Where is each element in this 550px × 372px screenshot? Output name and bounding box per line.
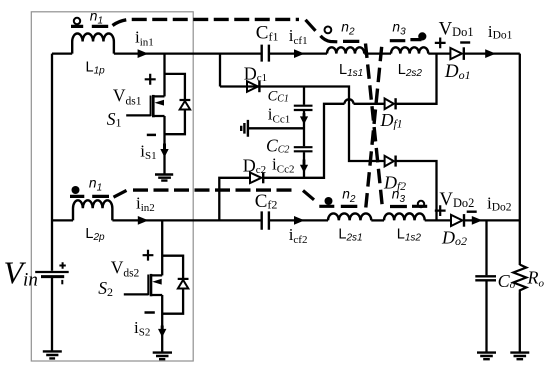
wire: rail between secondaries (top) bbox=[364, 52, 391, 54]
polarity dot n1 (bottom) bbox=[72, 186, 80, 194]
core 1 marks under n3 bottom bbox=[390, 205, 427, 208]
capacitor C_C1 bbox=[294, 106, 313, 110]
svg-text:iin2: iin2 bbox=[136, 193, 155, 214]
svg-text:L2p: L2p bbox=[85, 226, 105, 243]
+ label (V_Do2) bbox=[435, 205, 446, 216]
S2 source wire bbox=[161, 295, 163, 353]
body diode S2 bbox=[178, 280, 188, 289]
arrow i_Do2 bbox=[472, 216, 483, 225]
resistor R_o bbox=[513, 265, 526, 293]
capacitor C_f2 plates bbox=[262, 211, 269, 229]
svg-text:L2s1: L2s1 bbox=[338, 227, 362, 244]
svg-text:Cf1: Cf1 bbox=[256, 23, 279, 44]
polarity dot n3 (top) bbox=[418, 32, 426, 40]
diode D_f1 bbox=[385, 99, 394, 110]
wire: C_o column bbox=[485, 220, 487, 352]
svg-text:L1p: L1p bbox=[86, 60, 106, 77]
svg-text:Vds1: Vds1 bbox=[113, 85, 142, 107]
wire: D_f1 to top rail bbox=[396, 54, 437, 104]
ground (clamp midpoint, left-pointing) bbox=[241, 120, 248, 137]
+ label (V_Do1) bbox=[435, 38, 446, 49]
diode D_c1 bbox=[247, 81, 258, 92]
wire: D_o1 to output column bbox=[463, 52, 519, 54]
svg-text:L2s2: L2s2 bbox=[398, 62, 423, 79]
svg-text:L1s1: L1s1 bbox=[339, 62, 363, 79]
capacitor C_f1 plates bbox=[262, 45, 269, 62]
svg-text:n1: n1 bbox=[90, 8, 103, 26]
body diode S1 bbox=[180, 101, 190, 110]
svg-text:CC2: CC2 bbox=[266, 135, 289, 155]
S2 gate lead bbox=[124, 293, 149, 295]
svg-text:Vin: Vin bbox=[4, 254, 38, 290]
polarity circle n2 (top) bbox=[325, 27, 332, 34]
MOSFET S2 drain wire bbox=[161, 220, 163, 275]
wire: D_c1 row bbox=[220, 87, 385, 162]
polarity dot n2 (bottom) bbox=[325, 197, 333, 205]
svg-text:Do2: Do2 bbox=[441, 228, 467, 249]
- label (S1) bbox=[147, 134, 156, 137]
svg-text:Vds2: Vds2 bbox=[111, 257, 140, 279]
capacitor C_C2 bbox=[294, 147, 313, 151]
arrow i_S1 bbox=[163, 144, 166, 151]
core 2 diagonal L_2s1 to L_2s2 bbox=[366, 44, 382, 208]
core 2 marks under n3 top bbox=[390, 40, 422, 41]
arrow i_in1 bbox=[138, 49, 149, 58]
core 1 curve descent dashes bbox=[306, 20, 316, 31]
svg-text:iDo1: iDo1 bbox=[488, 22, 513, 42]
inductor L_1s1 bbox=[327, 47, 364, 53]
wire: D_o2 to output column bbox=[464, 219, 520, 221]
inductor L_2p bbox=[73, 200, 112, 220]
svg-text:Ro: Ro bbox=[527, 267, 545, 289]
svg-text:VDo1: VDo1 bbox=[439, 18, 474, 39]
svg-text:S1: S1 bbox=[107, 109, 122, 130]
svg-text:Dc2: Dc2 bbox=[243, 155, 266, 176]
arrow i_S2 bbox=[161, 326, 164, 332]
wire: input source column bbox=[51, 54, 53, 352]
svg-text:icf1: icf1 bbox=[289, 26, 308, 47]
inductor L_1s2 bbox=[384, 213, 425, 220]
arrow i_Do1 bbox=[485, 49, 496, 58]
core 2 curve descent dashes bbox=[303, 191, 314, 200]
core 2 marks under n2 bottom bbox=[319, 205, 357, 208]
battery V_in plates bbox=[35, 271, 68, 273]
svg-text:iS1: iS1 bbox=[140, 141, 156, 162]
wire: D_c2 row and riser to D_f1 bbox=[219, 104, 344, 221]
svg-text:iDo2: iDo2 bbox=[487, 194, 512, 214]
enclosure box (primary-side boundary) bbox=[31, 12, 193, 361]
svg-text:Cf2: Cf2 bbox=[255, 191, 278, 212]
wire: D_f2 to bottom rail bbox=[396, 161, 437, 220]
MOSFET S2 symbol bbox=[152, 275, 163, 295]
svg-text:iin1: iin1 bbox=[135, 28, 154, 49]
S1 gate lead bbox=[126, 114, 150, 116]
core 2 dashed curve L_2p to L_2s1 bbox=[114, 190, 127, 197]
svg-text:iCc1: iCc1 bbox=[268, 105, 290, 126]
wire hop over crossing bbox=[345, 99, 354, 104]
wire: midpoint to ground bbox=[248, 127, 304, 129]
wire: clamp capacitor column bbox=[303, 87, 305, 178]
core 2 marks: under n1 bottom bbox=[70, 195, 109, 198]
battery - mark bbox=[61, 280, 63, 284]
ground (R_o) bbox=[510, 353, 529, 360]
polarity circle n3 (bottom) bbox=[418, 201, 424, 207]
S2 channel arrow bbox=[152, 279, 162, 285]
- label (V_Do1) bbox=[460, 41, 470, 43]
core 1 diagonal L_1s1 to L_1s2 bbox=[366, 44, 383, 207]
diode D_o2 bbox=[451, 215, 462, 226]
body diode S1 branch bbox=[165, 74, 185, 134]
+ label (S2) bbox=[143, 250, 154, 261]
- label (V_Do2) bbox=[467, 210, 477, 212]
arrow i_cf1 bbox=[294, 49, 305, 58]
svg-text:n2: n2 bbox=[341, 19, 355, 37]
inductor L_2s1 bbox=[328, 213, 371, 220]
core 1 dashed curve L_1p to L_1s1 bbox=[113, 19, 300, 25]
arrow i_in2 bbox=[138, 216, 149, 225]
svg-text:Df1: Df1 bbox=[380, 110, 403, 131]
svg-text:n2: n2 bbox=[342, 187, 356, 205]
diode D_o1 bbox=[450, 48, 462, 59]
wire: L_2s2 to D_o1 bbox=[428, 52, 451, 54]
ground (C_o) bbox=[477, 353, 496, 360]
svg-text:L1s2: L1s2 bbox=[397, 227, 422, 244]
arrow i_Cc1 bbox=[303, 113, 306, 118]
S1 source wire bbox=[163, 116, 165, 174]
wire: between secondaries (bottom) bbox=[371, 219, 384, 221]
svg-text:n3: n3 bbox=[392, 19, 406, 37]
S1 channel arrow bbox=[155, 100, 165, 106]
capacitor C_o bbox=[475, 276, 496, 280]
wire: output column bbox=[519, 54, 521, 353]
ground (S1) bbox=[155, 175, 173, 181]
+ label (S1) bbox=[145, 74, 156, 85]
MOSFET S1 drain wire bbox=[163, 54, 165, 97]
wire: top rail (phase 1 input) bbox=[52, 52, 327, 54]
wire: bottom rail (phase 2 input) bbox=[52, 219, 328, 221]
battery + mark bbox=[59, 262, 65, 269]
core 1 marks under n2 top bbox=[343, 40, 359, 43]
svg-text:iS2: iS2 bbox=[134, 318, 150, 339]
svg-text:S2: S2 bbox=[98, 278, 113, 299]
svg-text:Co: Co bbox=[498, 271, 516, 291]
arrow i_Cc2 bbox=[303, 160, 306, 167]
wire: L_1s2 to D_o2 bbox=[425, 219, 451, 221]
core 1 coupling dashes: under n1 top bbox=[70, 19, 427, 207]
diode D_f2 bbox=[385, 156, 394, 167]
ground (battery) bbox=[43, 351, 62, 358]
svg-text:VDo2: VDo2 bbox=[439, 189, 474, 210]
svg-text:Do1: Do1 bbox=[444, 61, 471, 82]
svg-text:n1: n1 bbox=[89, 175, 102, 193]
svg-text:CC1: CC1 bbox=[268, 88, 289, 104]
diode D_c2 bbox=[250, 173, 261, 184]
ground (S2) bbox=[153, 353, 172, 360]
svg-text:icf2: icf2 bbox=[289, 225, 308, 246]
body diode S2 branch bbox=[162, 256, 183, 314]
wire: junction to clamp diode D_c1 bbox=[219, 54, 221, 87]
svg-text:iCc2: iCc2 bbox=[272, 154, 294, 175]
inductor L_1p bbox=[72, 33, 114, 53]
arrow i_cf2 bbox=[294, 216, 305, 225]
inductor L_2s2 bbox=[391, 47, 428, 53]
- label (S2) bbox=[145, 311, 155, 314]
polarity circle n1 (top) bbox=[74, 18, 80, 24]
MOSFET S1 symbol bbox=[154, 96, 165, 116]
svg-text:Dc1: Dc1 bbox=[244, 64, 267, 85]
